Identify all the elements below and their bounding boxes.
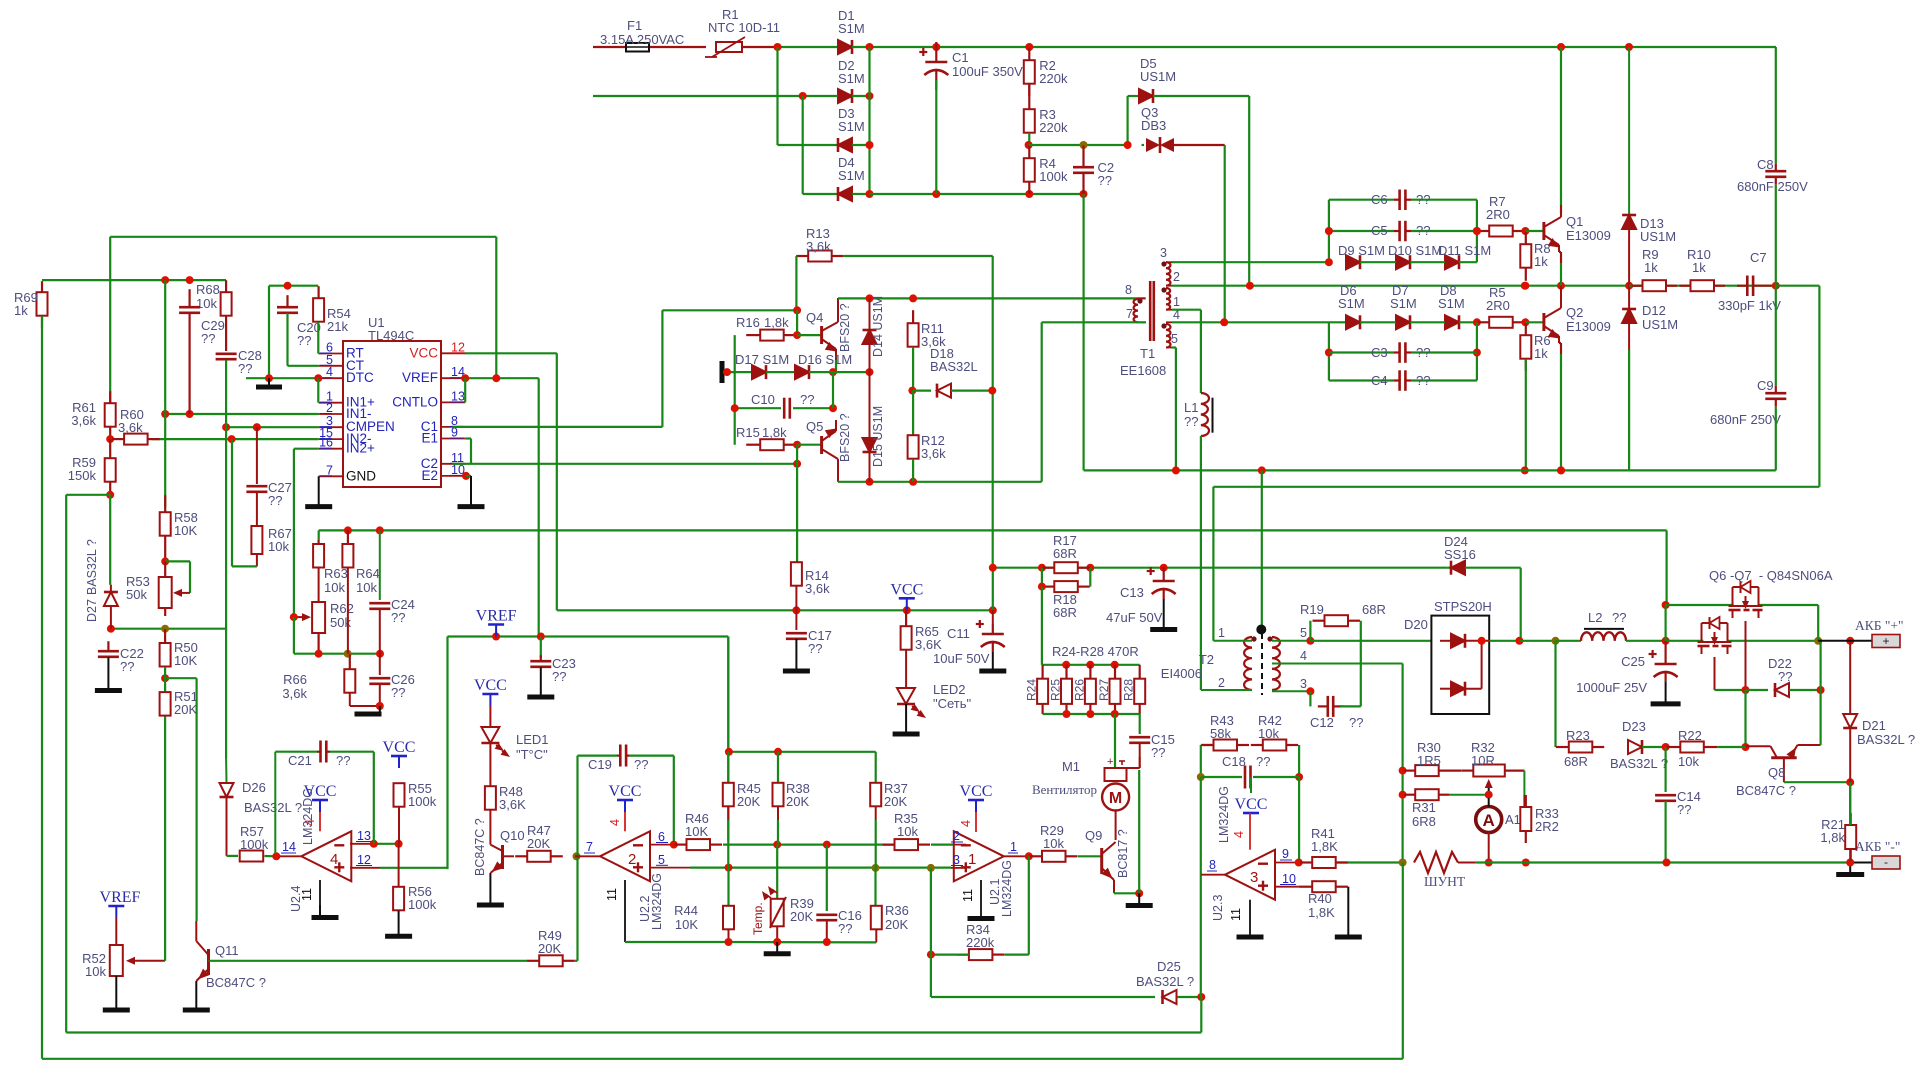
svg-text:BAS32L ?: BAS32L ? (85, 539, 99, 595)
wire R11-D18 (912, 347, 914, 391)
wire R21 top (1849, 782, 1851, 825)
svg-text:BC847C ?: BC847C ? (206, 975, 266, 990)
svg-text:BAS32L: BAS32L (930, 359, 978, 374)
junction (1258, 466, 1266, 474)
transistor Q2 (1544, 286, 1561, 343)
wire (1142, 144, 1145, 146)
wire R6 bottom (1525, 359, 1527, 470)
wire C8 bottom (1775, 185, 1777, 286)
wire R50/R51 tap (165, 677, 197, 679)
junction (344, 526, 352, 534)
svg-text:5: 5 (1300, 626, 1307, 640)
junction (829, 404, 837, 412)
junction (1197, 773, 1205, 781)
junction (927, 951, 935, 959)
wire D16 out (809, 371, 833, 373)
wire to motor + (1114, 714, 1116, 768)
wire R58 top (164, 280, 166, 507)
wire R15 to C2 row (796, 445, 798, 464)
supply VCC (474, 677, 507, 706)
svg-text:C6: C6 (1371, 192, 1388, 207)
svg-text:2R0: 2R0 (1486, 207, 1510, 222)
wire (1718, 746, 1746, 748)
svg-text:M1: M1 (1062, 759, 1080, 774)
svg-text:11: 11 (961, 889, 975, 902)
U1 pin 14 VREF (441, 377, 465, 379)
diode D6 (1346, 315, 1360, 329)
wire C15 to Q9 emitter (1138, 770, 1140, 893)
junction (823, 938, 831, 946)
svg-text:E2: E2 (421, 468, 438, 483)
wire bottom rail 2 (42, 1058, 1403, 1060)
svg-text:??: ?? (391, 685, 405, 700)
wire C12 left (1309, 691, 1311, 706)
resistor R4 (1024, 145, 1035, 194)
svg-text:R15: R15 (736, 425, 760, 440)
junction (1817, 686, 1825, 694)
svg-text:LM324DG: LM324DG (650, 873, 664, 930)
svg-text:Temp.: Temp. (751, 902, 765, 935)
junction (1111, 661, 1119, 669)
svg-text:LM324DG: LM324DG (1000, 860, 1014, 917)
wire C10 left (735, 407, 781, 409)
diode D5 (1139, 89, 1153, 103)
junction (866, 294, 874, 302)
svg-text:C11: C11 (947, 626, 970, 641)
wire pin5 rail (1084, 469, 1776, 471)
wire VCC rail b (796, 609, 992, 611)
junction (1742, 743, 1750, 751)
junction (228, 435, 236, 443)
resistor R2 (1024, 48, 1035, 96)
shunt resistor (1414, 852, 1476, 873)
junction (1172, 466, 1180, 474)
wire Q4 emitter (835, 360, 837, 372)
junction (1080, 190, 1088, 198)
resistor R48 (485, 786, 496, 810)
junction (1846, 778, 1854, 786)
svg-text:TL494C: TL494C (368, 328, 414, 343)
svg-text:R16: R16 (736, 315, 760, 330)
resistor R19 (1313, 615, 1361, 626)
svg-text:LED2: LED2 (933, 682, 966, 697)
wire C16 top (826, 845, 828, 911)
svg-text:DTC: DTC (346, 370, 374, 385)
svg-text:Q11: Q11 (215, 943, 239, 958)
svg-text:10uF 50V: 10uF 50V (933, 651, 990, 666)
U1 pin 5 CT (319, 365, 343, 367)
junction (799, 92, 807, 100)
wire C19 right vert (673, 756, 675, 845)
resistor R28 (1134, 665, 1145, 714)
svg-text:Q5: Q5 (806, 419, 823, 434)
wire down to DTC (268, 286, 270, 379)
capacitor C6 (1394, 190, 1411, 211)
svg-text:L1: L1 (1184, 400, 1198, 415)
wire rect- vertical (802, 96, 804, 194)
wire to Q5 base (797, 444, 822, 446)
junction (1038, 564, 1046, 572)
resistor R30 (1404, 765, 1462, 776)
junction (1063, 710, 1071, 718)
svg-text:20K: 20K (527, 836, 550, 851)
wire R37 bottom (875, 820, 877, 868)
wire to D4 (803, 193, 838, 195)
svg-text:8: 8 (1125, 283, 1132, 297)
ground (AKB-) (1836, 872, 1864, 877)
wire to D18 (912, 390, 931, 392)
U1 pin 10 E2 (441, 475, 465, 477)
junction (908, 387, 916, 395)
capacitor (98, 641, 119, 657)
svg-text:10k: 10k (1043, 836, 1064, 851)
ground (DTC) (256, 385, 282, 390)
T1 pin 7 (1138, 321, 1146, 323)
MOSFET Q7 (1729, 581, 1763, 618)
resistor R26 (1085, 665, 1096, 714)
U1 pin 8 C1 (441, 426, 465, 428)
svg-text:Q6 -Q7 - Q84SN06A: Q6 -Q7 - Q84SN06A (1709, 568, 1833, 583)
resistor R29 (1030, 851, 1078, 862)
svg-text:??: ?? (1416, 192, 1430, 207)
resistor R21 (1845, 813, 1856, 861)
junction (774, 748, 782, 756)
svg-text:7: 7 (586, 840, 593, 854)
svg-text:R24-R28 470R: R24-R28 470R (1052, 644, 1139, 659)
wire pin1 down (1200, 310, 1202, 393)
wire to D5 (1029, 144, 1128, 146)
supply VCC (C18/U2.3) (1235, 777, 1268, 813)
capacitor C4 (1394, 370, 1411, 391)
diode D9 (1346, 255, 1360, 269)
svg-text:R44: R44 (674, 903, 698, 918)
wire tap down to Q11 (196, 678, 198, 921)
junction (1086, 564, 1094, 572)
wire to Q2 base (1525, 321, 1544, 323)
transistor Q9 (1102, 842, 1116, 892)
transformer T1 (1134, 261, 1171, 347)
wire loop to T2 pin1 (1212, 487, 1214, 641)
junction (376, 650, 384, 658)
svg-text:3,6K: 3,6K (915, 637, 942, 652)
wire (1459, 321, 1477, 323)
supply VREF (R52) (100, 889, 141, 917)
junction R53 bottom (161, 625, 169, 633)
wire loop right (1818, 286, 1820, 487)
svg-text:??: ?? (1349, 715, 1363, 730)
U2.4 pin 14 (276, 855, 301, 857)
svg-text:Q10: Q10 (500, 828, 525, 843)
wire C19 row a (578, 754, 618, 756)
capacitor (369, 678, 390, 684)
IC U1 TL494C (343, 341, 441, 487)
resistor R9 (1632, 280, 1678, 291)
wire R44 top (727, 868, 729, 905)
wire D22 up to out (1819, 641, 1821, 690)
ground (U2.4 pin11) (312, 915, 339, 920)
wire rail530 down (1665, 530, 1667, 605)
T1 pin 1 (1166, 309, 1172, 311)
svg-text:20K: 20K (737, 794, 760, 809)
wire C2 bottom long (1082, 194, 1084, 470)
wire R59 bottom (66, 494, 110, 496)
ground (R56) (385, 934, 412, 939)
wire R38 bottom (777, 820, 779, 845)
diode D18 (937, 384, 951, 398)
svg-text:D17 S1M: D17 S1M (735, 352, 789, 367)
capacitor (216, 354, 237, 359)
wire VREF row (465, 377, 539, 379)
wire gate to R22 (1744, 690, 1746, 747)
supply VCC (383, 739, 416, 768)
wire C8 top (1775, 47, 1777, 163)
wire AC1 vertical (776, 47, 778, 145)
potentiometer R53 (159, 561, 190, 616)
svg-text:??: ?? (391, 610, 405, 625)
junction (774, 43, 782, 51)
svg-text:S1M: S1M (1338, 296, 1365, 311)
wire sense vert (1401, 771, 1403, 863)
capacitor C2 (1073, 145, 1094, 194)
U2.3 pin 8 (1201, 874, 1225, 876)
svg-text:4: 4 (330, 851, 338, 868)
wire C19 row b (629, 754, 674, 756)
wire C9 top (1775, 286, 1777, 385)
ground (R52) (103, 1008, 130, 1013)
svg-text:VCC: VCC (890, 581, 923, 598)
junction (1473, 227, 1481, 235)
U2.2 pin 11 (624, 880, 626, 942)
capacitor (1245, 766, 1251, 789)
wire pin7 down (1041, 322, 1043, 482)
T2 pin 5 (1272, 640, 1310, 642)
wire to D3 (778, 144, 839, 146)
svg-text:U2.3: U2.3 (1211, 895, 1225, 921)
wire Q7 rail b (1758, 604, 1819, 606)
junction (866, 141, 874, 149)
junction (1662, 601, 1670, 609)
svg-text:6R8: 6R8 (1412, 814, 1436, 829)
svg-text:BFS20 ?: BFS20 ? (838, 413, 852, 462)
wire (1005, 953, 1029, 955)
inductor L2 (1581, 629, 1626, 641)
wire R45 top (727, 752, 729, 782)
wire rect+ vertical (868, 47, 870, 194)
svg-text:10k: 10k (196, 296, 217, 311)
wire C3C4 left (1328, 322, 1330, 380)
junction (1135, 889, 1143, 897)
svg-text:VCC: VCC (409, 345, 438, 360)
supply VCC (609, 783, 642, 812)
svg-text:??: ?? (1256, 754, 1270, 769)
U1 pin 7 GND (319, 475, 343, 477)
svg-text:-: - (1884, 855, 1888, 869)
svg-text:220k: 220k (1039, 71, 1068, 86)
resistor R44 (723, 906, 734, 930)
U2.4 pin 12 (350, 867, 380, 869)
junction (1557, 466, 1565, 474)
wire C21 top b (330, 751, 374, 753)
junction (872, 864, 880, 872)
svg-text:C7: C7 (1750, 250, 1767, 265)
transistor Q4 (822, 298, 838, 360)
svg-text:R24: R24 (1025, 679, 1039, 701)
wire pin5 down (1175, 348, 1177, 470)
junction (1399, 791, 1407, 799)
junction (1325, 227, 1333, 235)
ground (U2.2 net) (764, 951, 791, 956)
op-amp U2.1 (954, 831, 1004, 881)
svg-text:Q8: Q8 (1768, 765, 1785, 780)
wire IN2+ (294, 448, 319, 450)
U2.1 pin 3 (951, 867, 966, 869)
svg-text:??: ?? (1416, 373, 1430, 388)
wire T1 pin3 (1172, 261, 1329, 263)
wire ladder top (1042, 664, 1140, 666)
svg-text:2: 2 (628, 851, 636, 868)
wire (1329, 351, 1394, 353)
svg-text:DB3: DB3 (1141, 118, 1166, 133)
wire VCC/batt rail y530 (319, 529, 1667, 531)
svg-text:E1: E1 (421, 431, 438, 446)
junction (793, 306, 801, 314)
wire R54 to RT (317, 322, 319, 354)
MOSFET Q6 (1698, 617, 1732, 654)
resistor R8 (1520, 231, 1531, 281)
resistor R51 (160, 692, 171, 716)
svg-text:S1M: S1M (1438, 296, 1465, 311)
svg-text:10k: 10k (324, 580, 345, 595)
wire VCC node vert (992, 568, 994, 611)
wire VREF down (538, 378, 540, 636)
wire C18 right (1253, 776, 1299, 778)
svg-text:C3: C3 (1371, 345, 1388, 360)
ground (R40) (1335, 935, 1362, 940)
wire (852, 144, 870, 146)
thermistor R1 (705, 37, 778, 57)
svg-text:10K: 10K (675, 917, 698, 932)
svg-text:VCC: VCC (383, 739, 416, 756)
T1 pin 4 (1166, 321, 1172, 323)
svg-text:"T°C": "T°C" (516, 747, 548, 762)
svg-text:20K: 20K (786, 794, 809, 809)
wire (852, 193, 870, 195)
wire VREF to U2.4 + (446, 637, 448, 870)
svg-text:13: 13 (357, 829, 371, 843)
resistor R61 (105, 391, 116, 439)
svg-text:2: 2 (1218, 676, 1225, 690)
svg-text:10k: 10k (85, 964, 106, 979)
svg-text:3: 3 (1160, 246, 1167, 260)
wire wiper down (189, 561, 191, 593)
svg-text:4: 4 (1232, 831, 1246, 838)
svg-text:D12: D12 (1642, 303, 1666, 318)
capacitor (1655, 795, 1676, 801)
wire C23 top (540, 637, 542, 659)
wire CNTLO tie (464, 378, 466, 402)
svg-text:??: ?? (1612, 610, 1626, 625)
junction (1521, 227, 1529, 235)
wire (1459, 261, 1477, 263)
junction (290, 613, 298, 621)
inductor L1 (1201, 393, 1213, 436)
wire to T1 pin2 (1248, 96, 1250, 286)
svg-text:АКБ "-": АКБ "-" (1855, 839, 1900, 854)
svg-text:R62: R62 (330, 601, 354, 616)
svg-text:5: 5 (1171, 332, 1178, 346)
svg-text:US1M: US1M (1640, 229, 1676, 244)
junction (462, 472, 470, 480)
svg-text:3,6K: 3,6K (499, 797, 526, 812)
svg-text:D26: D26 (242, 780, 266, 795)
svg-text:1,8k: 1,8k (1820, 830, 1845, 845)
wire R58-wiper (165, 560, 190, 562)
junction (186, 276, 194, 284)
resistor R33 (1520, 795, 1531, 843)
U2.3 pin 11 (1249, 900, 1251, 936)
svg-text:D14 US1M: D14 US1M (871, 296, 885, 357)
svg-text:VCC: VCC (960, 783, 993, 800)
svg-text:2: 2 (953, 829, 960, 843)
wire D21 to AKB- (1849, 782, 1851, 862)
svg-text:US1M: US1M (1642, 317, 1678, 332)
junction (866, 43, 874, 51)
junction (823, 841, 831, 849)
svg-text:12: 12 (357, 853, 371, 867)
svg-text:4: 4 (1300, 649, 1307, 663)
svg-text:R64: R64 (356, 566, 380, 581)
wire Q3 to T1 pin4 (1224, 145, 1226, 322)
wire C25 node vert (1664, 605, 1666, 641)
resistor R15 (746, 439, 796, 450)
junction (723, 368, 731, 376)
wire to R24 rail (1041, 587, 1043, 665)
svg-text:1,8K: 1,8K (1311, 839, 1338, 854)
wire D25 to rail1 (1200, 997, 1202, 1033)
wire battery minus row (1476, 861, 1851, 863)
diode D22 (1775, 683, 1789, 697)
supply VCC (960, 783, 993, 812)
capacitor (530, 655, 551, 667)
wire Q11 base row (209, 960, 528, 962)
wire (1329, 379, 1394, 381)
capacitor C19 (617, 745, 629, 767)
junction (1306, 687, 1314, 695)
junction (186, 410, 194, 418)
ground (R66/C26) (355, 712, 382, 717)
wire IN2- row (152, 438, 319, 440)
resistor R27 (1110, 665, 1121, 714)
svg-text:1: 1 (968, 851, 976, 868)
junction (773, 938, 781, 946)
svg-text:T1: T1 (1140, 346, 1155, 361)
wire VREF distribution (448, 635, 729, 637)
svg-text:NTC 10D-11: NTC 10D-11 (708, 20, 780, 35)
junction (1086, 661, 1094, 669)
junction (370, 840, 378, 848)
resistor R56 (393, 887, 404, 911)
svg-text:??: ?? (238, 361, 252, 376)
svg-text:АКБ "+": АКБ "+" (1855, 618, 1904, 633)
svg-text:16: 16 (319, 436, 333, 450)
svg-text:S1M: S1M (838, 21, 865, 36)
svg-text:20K: 20K (790, 909, 813, 924)
svg-text:R25: R25 (1049, 679, 1063, 701)
diode D17 (752, 365, 766, 379)
wire CT (288, 365, 319, 367)
capacitor (1318, 696, 1343, 717)
U2.1 pin 2 (954, 844, 966, 846)
